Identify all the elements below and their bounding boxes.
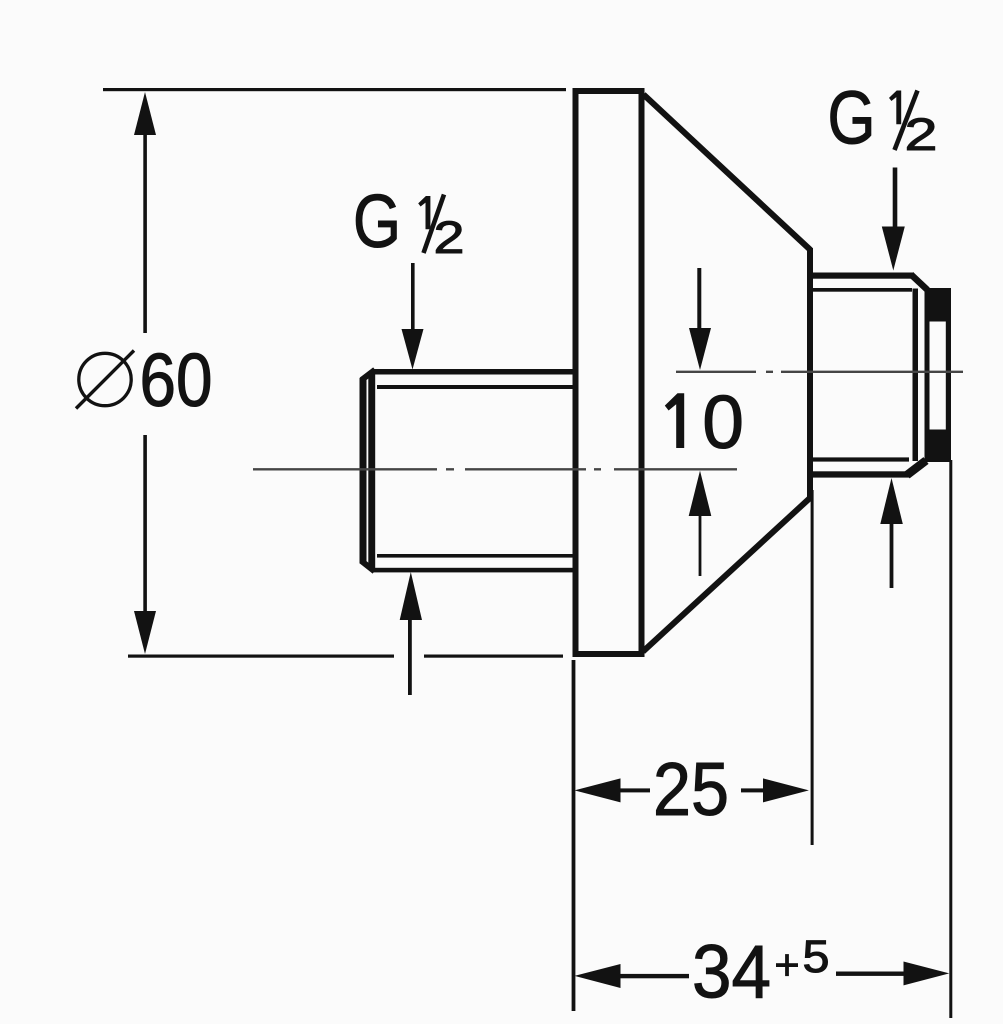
seal top band fill <box>925 288 952 322</box>
arrowhead down ⌀60 <box>134 611 156 654</box>
dim 25 left stub <box>618 788 650 792</box>
dim 25 left arrowhead <box>575 778 621 802</box>
up arrow at right pipe bottom: shaft <box>890 524 894 588</box>
label 10: digit 1 <box>665 393 684 448</box>
dimension line ⌀60 vertical shaft lower segment <box>143 435 147 613</box>
arrow shaft G1/2 right <box>893 168 898 228</box>
extension line bottom right segment (diameter 60, lower) <box>424 655 563 658</box>
cone right face <box>807 248 813 500</box>
diameter symbol slash <box>76 351 134 409</box>
label +5 superscript: plus sign <box>776 963 798 967</box>
right pipe thread line top <box>813 288 912 292</box>
up arrow at right pipe bottom: head <box>880 478 903 524</box>
flange body outline <box>576 91 642 654</box>
dim 34+5 left stub <box>618 974 689 978</box>
centerline lower (left pipe axis) <box>253 468 737 470</box>
dimension line ⌀60 vertical shaft upper segment <box>143 128 147 333</box>
arrowhead G1/2 right (down) <box>882 227 905 271</box>
left pipe thread line bottom <box>377 554 573 558</box>
svg-text:G: G <box>828 76 876 160</box>
right pipe chamfer top <box>911 275 928 291</box>
cone upper slope <box>644 95 811 251</box>
left pipe thread line top <box>377 385 573 389</box>
svg-text:2: 2 <box>905 109 938 160</box>
extension line flange left (for 25 and 34+5) <box>572 660 576 1011</box>
right pipe chamfer bottom <box>907 461 926 476</box>
left pipe end second line <box>368 373 375 569</box>
centerline upper (right pipe axis) <box>676 371 963 373</box>
dim 10 upper arrow shaft <box>697 268 701 330</box>
svg-text:2: 2 <box>434 212 465 263</box>
extension line top (diameter 60, upper) <box>103 88 566 91</box>
cone lower slope <box>643 498 811 652</box>
dim 10 lower arrowhead (up) <box>689 471 712 516</box>
seal left column line <box>925 288 930 462</box>
up arrow at left pipe bottom: shaft <box>408 620 412 695</box>
extension line bottom left segment (diameter 60, lower) <box>128 655 394 658</box>
seal bottom band fill <box>925 430 952 463</box>
left pipe chamfer bottom <box>362 561 375 571</box>
svg-text:G: G <box>353 179 401 263</box>
svg-text:5: 5 <box>803 931 830 982</box>
extension line seal right (for 34+5) <box>949 460 952 1018</box>
extension line cone corner (for 25) <box>811 490 814 845</box>
svg-text:60: 60 <box>140 338 213 422</box>
right pipe G1/2 top edge <box>810 273 914 279</box>
svg-text:25: 25 <box>653 747 729 831</box>
svg-text:34: 34 <box>692 930 771 1014</box>
left pipe G1/2 top edge <box>371 369 573 375</box>
seal right column line <box>946 288 951 462</box>
label G 1/2 right: fraction slash <box>895 91 918 151</box>
dim 25 right stub <box>741 788 765 792</box>
left pipe bottom edge <box>371 568 573 573</box>
up arrow at left pipe bottom: head <box>400 572 422 620</box>
dim 34+5 right arrowhead <box>904 962 950 986</box>
left pipe end face line <box>360 378 367 564</box>
label G 1/2 right: numerator 1 <box>889 91 901 125</box>
right pipe bottom edge <box>810 471 911 477</box>
dim 10 upper arrowhead (down) <box>689 328 711 370</box>
dim 34+5 left arrowhead <box>575 964 621 988</box>
arrowhead G1/2 left (down) <box>402 329 424 370</box>
arrowhead up ⌀60 <box>134 92 156 135</box>
right pipe end face line <box>913 289 919 462</box>
diameter symbol circle <box>79 353 131 405</box>
dim 10 lower arrow shaft <box>699 516 702 576</box>
svg-text:0: 0 <box>702 380 744 464</box>
arrow shaft G1/2 left <box>411 263 415 331</box>
dim 25 right arrowhead <box>763 778 809 802</box>
right pipe thread line bottom <box>813 457 909 461</box>
label G 1/2 left: fraction slash <box>424 195 445 254</box>
left pipe chamfer top <box>362 370 376 380</box>
dim 34+5 right stub <box>836 972 904 976</box>
label G 1/2 left: numerator 1 <box>418 196 430 229</box>
